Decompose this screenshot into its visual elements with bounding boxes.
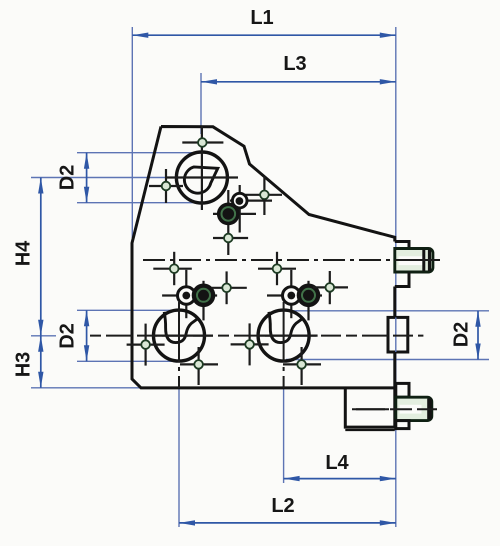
output shaft end cap <box>427 399 432 420</box>
screw lower-right of bottom-right bore <box>283 347 321 385</box>
extension line right edge (L1/L3/L4/L2) <box>395 27 397 527</box>
svg-text:H4: H4 <box>13 240 35 266</box>
extension line bottom-left bore center (L2) <box>178 388 180 527</box>
bracket block <box>345 388 395 427</box>
extension line top bore center (L3) <box>200 73 202 134</box>
housing outline <box>132 127 395 388</box>
extension line bottom bore lower-left (D2) <box>77 360 176 362</box>
centerline upper shaft axis <box>143 259 440 261</box>
svg-text:L3: L3 <box>283 53 306 75</box>
extension line bottom-right bore lower (D2 right) <box>286 359 489 361</box>
screw mid-left-2 <box>212 271 247 304</box>
boss lower step <box>395 272 409 287</box>
dimension H4 <box>40 178 42 336</box>
pin ring <box>230 185 272 233</box>
svg-text:D2: D2 <box>57 323 79 349</box>
extension line bottom-right bore center (L4) <box>283 388 285 483</box>
svg-text:L1: L1 <box>250 7 273 29</box>
centerline bottom-right bore vertical <box>283 302 285 388</box>
screw left of bottom-right bore <box>231 323 269 365</box>
screw mid-right-2 <box>313 271 348 304</box>
washer ring right <box>267 270 322 318</box>
bore bottom-left cam insert <box>164 312 197 343</box>
svg-text:D2: D2 <box>451 322 473 348</box>
output upper step <box>396 383 409 397</box>
dimension H3 <box>40 336 42 388</box>
plug ring right <box>297 281 321 321</box>
plug ring left <box>192 281 216 321</box>
extension line top bore upper (D2) <box>77 152 197 154</box>
dimension L3 <box>201 81 396 83</box>
centerline bottom-left bore vertical <box>178 302 180 388</box>
washer ring left <box>162 270 217 318</box>
dimension D2 right <box>477 311 479 360</box>
svg-text:D2: D2 <box>57 165 79 191</box>
output shaft <box>396 397 432 420</box>
output lower step <box>396 421 409 429</box>
extension line bottom bore center stub (H4/H3) <box>31 335 56 337</box>
crosshair bottom-right bore horizontal <box>257 335 318 337</box>
bracket base plate line <box>345 429 395 431</box>
dimension D2 bottom-left <box>86 310 88 361</box>
extension line left of body (L1) <box>131 27 133 238</box>
dimension L2 <box>179 522 396 524</box>
centerline lower bores axis <box>90 335 423 337</box>
bore bottom-left circle <box>154 310 205 361</box>
svg-text:L4: L4 <box>325 452 349 474</box>
extension line bottom-right bore upper (D2 right) <box>286 310 489 312</box>
screw mid-left <box>153 252 192 285</box>
bore top cam insert <box>184 167 217 193</box>
extension line top bore lower (D2) <box>77 202 197 204</box>
extension line top bore center (H4) <box>31 177 173 179</box>
screw left of top bore <box>149 169 183 203</box>
dimension L4 <box>284 478 396 480</box>
dimension L1 <box>132 34 396 36</box>
boss shaft end line 1 <box>422 250 425 272</box>
centerline bottom output axis <box>352 408 445 410</box>
extension line bottom bore upper-left (D2) <box>77 309 176 311</box>
svg-text:L2: L2 <box>271 495 294 517</box>
boss body <box>395 249 433 273</box>
sight glass <box>388 317 408 352</box>
screw left of bottom-left bore <box>127 324 165 366</box>
crosshair top bore horizontal <box>167 176 238 178</box>
bore bottom-right cam insert <box>269 312 302 343</box>
bracket centerline <box>356 408 389 410</box>
screw mid-right <box>258 252 296 285</box>
extension line body bottom (H3) <box>31 387 143 389</box>
centerline through boss <box>400 259 440 261</box>
boss upper step <box>395 242 409 249</box>
dimension D2 top-left <box>86 153 88 203</box>
crosshair top bore vertical <box>201 126 203 210</box>
screw top <box>182 138 223 147</box>
output shaft white core <box>400 405 422 414</box>
svg-text:H3: H3 <box>13 352 35 378</box>
boss shaft end cap <box>428 250 431 272</box>
screw below plug <box>213 234 248 243</box>
extension line through sight glass <box>395 317 397 352</box>
boss white core <box>399 256 423 265</box>
plug <box>213 190 256 255</box>
screw lower-right of bottom-left bore <box>180 347 218 385</box>
crosshair bottom-left bore horizontal <box>152 335 213 337</box>
screw right of top bore <box>245 176 283 215</box>
bore top circle <box>176 152 227 203</box>
bore bottom-right circle <box>258 310 309 361</box>
